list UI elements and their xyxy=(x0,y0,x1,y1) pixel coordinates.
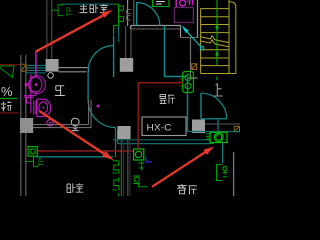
green tick top leaf xyxy=(114,26,118,35)
fan symbol xyxy=(210,132,227,142)
GD socket box xyxy=(183,72,194,93)
knob circle xyxy=(48,73,54,79)
gray line y=123.5 xyxy=(204,123,240,125)
wall horizontal y=25.8 xyxy=(131,25,181,27)
wall left pair lower xyxy=(20,55,22,196)
door 1 leaf xyxy=(136,2,138,26)
door bath arc lower xyxy=(88,100,116,128)
column C4 xyxy=(192,120,205,134)
door 1 arc xyxy=(137,3,160,26)
orange box switch (stairs) xyxy=(192,64,197,70)
bed wire green xyxy=(118,4,120,28)
column C2 xyxy=(120,58,133,72)
red arrow A xyxy=(35,10,112,52)
column C5 xyxy=(20,118,33,133)
TP symbol 1 xyxy=(52,5,63,16)
toilet magenta xyxy=(27,74,51,116)
wall step y=37.5 xyxy=(181,37,198,39)
svg-text:TP: TP xyxy=(65,7,74,17)
door right arc xyxy=(201,93,227,119)
green box top xyxy=(153,0,170,7)
maroon dining rect xyxy=(138,83,183,120)
maroon wire bottom xyxy=(37,150,134,152)
up glyph xyxy=(212,83,222,96)
HX-C box xyxy=(142,117,186,136)
magenta ceiling dot xyxy=(97,105,100,108)
green bracket bottom right xyxy=(211,141,228,181)
svg-text:TP: TP xyxy=(39,157,46,166)
bedroom label xyxy=(80,4,109,13)
teal drop x=218 xyxy=(217,119,219,135)
stairs xyxy=(201,0,236,74)
teal y=139.8 xyxy=(113,139,210,141)
door right leaf xyxy=(200,93,202,119)
green triangle xyxy=(0,66,14,77)
teal wall x=187.5 xyxy=(187,78,189,132)
blue jumper xyxy=(146,156,152,162)
wc label xyxy=(55,86,65,96)
cyan leader arrow xyxy=(200,46,204,50)
maroon drop xyxy=(137,120,139,149)
lamp symbol xyxy=(71,118,79,126)
teal vertical pair bottom xyxy=(115,128,117,158)
svg-text:%: % xyxy=(1,84,13,99)
walls bottom center xyxy=(120,139,122,196)
column C1 xyxy=(46,59,59,72)
maroon line left 2 xyxy=(0,112,19,114)
wall vertical x=180.5 xyxy=(180,26,182,38)
wall right bottom xyxy=(233,152,235,196)
wall y=78 xyxy=(188,77,198,79)
dining label xyxy=(160,95,175,104)
magenta outlet circle xyxy=(47,120,53,126)
wire teal top xyxy=(61,3,114,5)
teal right vertical xyxy=(222,143,224,164)
wall pair above column C2 xyxy=(125,26,127,58)
maroon line left xyxy=(0,64,21,66)
cabinet label xyxy=(0,98,17,100)
bathroom jamb upper xyxy=(59,68,89,72)
teal y=143.6 xyxy=(118,143,211,145)
living room label xyxy=(178,184,197,194)
column C3 xyxy=(117,126,130,139)
wall left bedroom pair xyxy=(46,0,48,59)
bath lower wall corner xyxy=(33,100,91,128)
teal y=134.5 xyxy=(188,131,241,133)
wall top-center vertical xyxy=(127,0,129,26)
bottom bedroom label xyxy=(67,183,83,192)
teal vertical x=88 xyxy=(87,71,89,100)
bathroom wires teal xyxy=(27,65,46,73)
direction diamonds xyxy=(215,24,218,31)
wall vertical x=197.5 xyxy=(197,0,199,38)
green column A xyxy=(113,161,119,196)
red arrow C xyxy=(152,147,214,187)
stair direction line xyxy=(216,0,218,66)
TP symbol 2 xyxy=(26,157,38,167)
magenta label box xyxy=(174,8,193,23)
green column B xyxy=(133,162,147,187)
teal under-arc line xyxy=(201,118,227,120)
orange box bath xyxy=(21,64,26,71)
svg-text:HX-C: HX-C xyxy=(147,123,173,133)
wall vertical x=190.5 xyxy=(190,38,192,79)
door bath leaf wall xyxy=(113,36,115,78)
wire teal dining xyxy=(165,26,188,77)
basin magenta xyxy=(24,76,45,98)
door bath arc upper xyxy=(88,46,113,71)
red arrow B xyxy=(39,111,114,160)
teal wire bottom xyxy=(35,156,113,158)
green box1 xyxy=(28,147,37,157)
wall niche marks xyxy=(126,10,131,21)
green box2 xyxy=(134,149,144,160)
orange box right edge xyxy=(234,126,239,132)
magenta riser xyxy=(35,52,37,77)
